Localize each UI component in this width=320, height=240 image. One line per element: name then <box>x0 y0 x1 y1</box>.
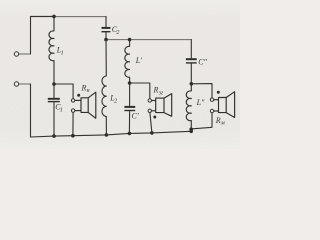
svg-text:R: R <box>81 83 87 92</box>
svg-text:2: 2 <box>116 30 119 36</box>
svg-text:2: 2 <box>114 98 117 104</box>
svg-text:C′: C′ <box>132 112 139 121</box>
svg-text:н: н <box>87 88 90 94</box>
svg-text:L″: L″ <box>196 98 205 107</box>
svg-text:L′: L′ <box>135 56 142 65</box>
svg-text:м: м <box>220 121 225 127</box>
svg-text:зг: зг <box>158 90 164 96</box>
svg-text:R: R <box>153 86 159 95</box>
svg-text:R: R <box>215 116 221 125</box>
svg-text:1: 1 <box>60 108 63 114</box>
svg-text:1: 1 <box>61 51 64 57</box>
svg-text:C″: C″ <box>198 57 207 66</box>
